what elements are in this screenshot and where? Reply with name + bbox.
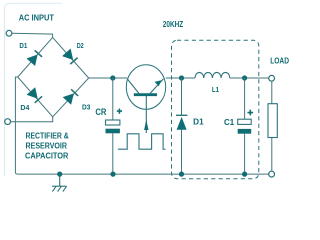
- inductor L1 coil: [195, 72, 230, 78]
- diode D1 (bridge upper-left): [27, 50, 43, 66]
- wire: CR top lead: [112, 78, 114, 120]
- diode D3 (bridge lower-right): [63, 89, 78, 105]
- svg-text:D4: D4: [20, 105, 29, 112]
- dashed converter box: [172, 40, 259, 179]
- transistor base lead down: [145, 96, 147, 133]
- drive arrow on base lead (pointing up): [144, 120, 148, 130]
- bridge diamond outline: [18, 37, 89, 116]
- transistor emitter diagonal with arrow: [150, 79, 164, 94]
- node junction dot (CR top): [110, 75, 115, 80]
- svg-text:RESERVOIR: RESERVOIR: [26, 140, 68, 150]
- diode D4 (bridge lower-left): [27, 87, 42, 103]
- node junction dot (D1 bottom): [179, 172, 184, 177]
- node junction dot (ground): [57, 172, 62, 177]
- wire: inductor to load node: [230, 77, 269, 79]
- freewheel diode D1: [176, 115, 187, 130]
- svg-text:D1: D1: [19, 43, 27, 50]
- svg-text:CR: CR: [95, 107, 106, 117]
- plus sign (CR polarity): [117, 109, 122, 114]
- svg-text:D2: D2: [77, 43, 84, 50]
- wire: bridge left vertex stub down to bottom rail: [15, 77, 17, 174]
- wire: CR bottom lead to bottom rail: [112, 133, 114, 174]
- transistor collector diagonal: [128, 80, 139, 94]
- wire: resistor to bottom terminal: [271, 138, 273, 172]
- freewheel diode D1 leads: [181, 78, 183, 115]
- node junction dot (C1 bottom): [242, 172, 247, 177]
- capacitor C1 plates: [238, 119, 252, 134]
- svg-text:20KHZ: 20KHZ: [163, 20, 183, 29]
- wire: load terminal to resistor: [271, 81, 273, 104]
- load terminal (top): [269, 75, 275, 81]
- svg-text:AC INPUT: AC INPUT: [19, 13, 55, 23]
- AC input terminal (top): [6, 30, 12, 36]
- 20 kHz square-wave drive symbol: [118, 134, 166, 149]
- node junction dot (D1 freewheel top): [179, 75, 184, 80]
- svg-text:RECTIFIER &: RECTIFIER &: [26, 130, 69, 140]
- resistor LOAD: [268, 104, 277, 138]
- plus sign (C1 polarity): [248, 110, 254, 116]
- ground symbol: [52, 186, 67, 191]
- ground stub: [59, 174, 61, 186]
- load terminal (bottom): [269, 171, 275, 177]
- node junction dot (C1 top): [242, 75, 247, 80]
- wire: DC+ rail, bridge right vertex to transistor: [89, 77, 127, 79]
- transistor base bar: [134, 93, 157, 96]
- capacitor CR plates: [106, 120, 120, 133]
- node junction dot (CR bottom): [110, 172, 115, 177]
- wire: C1 top lead: [244, 78, 246, 119]
- wire: transistor emitter to inductor: [166, 77, 195, 79]
- transistor Q1 body circle: [126, 65, 165, 110]
- wire: bridge bottom vertex stub to lower AC terminal: [11, 117, 53, 122]
- wire: AC top terminal to bridge top vertex: [12, 33, 53, 37]
- diode D2 (bridge upper-right): [62, 49, 78, 65]
- bottom return rail: [17, 173, 268, 175]
- svg-text:CAPACITOR: CAPACITOR: [25, 151, 69, 161]
- svg-text:D1: D1: [193, 118, 204, 127]
- svg-text:L1: L1: [212, 87, 219, 94]
- svg-text:LOAD: LOAD: [270, 57, 289, 66]
- wire: C1 bottom lead: [244, 134, 246, 174]
- AC input terminal (bottom): [5, 119, 11, 125]
- svg-text:C1: C1: [224, 118, 235, 127]
- svg-text:D3: D3: [82, 104, 90, 111]
